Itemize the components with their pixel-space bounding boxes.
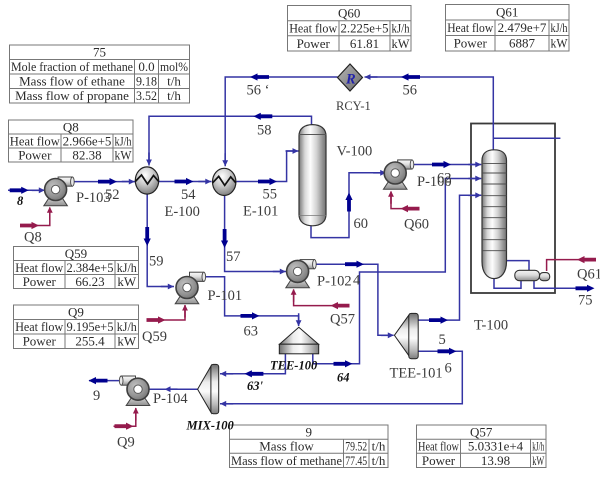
svg-text:62: 62	[437, 171, 452, 187]
svg-text:mol%: mol%	[160, 59, 188, 74]
label P-103	[76, 190, 111, 206]
wire stream 64 and 62 TEE-100 to T-100 feed 2	[313, 176, 482, 368]
svg-text:E-101: E-101	[243, 204, 278, 220]
svg-text:61.81: 61.81	[350, 36, 379, 51]
svg-text:kJ/h: kJ/h	[392, 21, 410, 36]
column T-100 sub-flowsheet envelope	[471, 124, 555, 294]
svg-text:Heat flow: Heat flow	[418, 439, 459, 454]
svg-text:Q8: Q8	[24, 230, 42, 246]
wire stream 75 reboiler to product	[534, 281, 595, 292]
wire T-100 bottom to reboiler	[506, 261, 529, 271]
svg-text:55: 55	[263, 187, 278, 203]
label stream 56p	[247, 83, 270, 99]
svg-text:Heat flow: Heat flow	[15, 260, 64, 275]
wire stream 56 T-100 overhead to RCY-1	[365, 73, 494, 149]
svg-text:t/h: t/h	[372, 439, 386, 454]
svg-text:Mass flow of propane: Mass flow of propane	[15, 88, 129, 103]
table stream 75 properties	[10, 45, 190, 103]
svg-text:MIX-100: MIX-100	[186, 419, 235, 433]
wire stream 8 into P-103	[8, 187, 45, 194]
svg-text:kJ/h: kJ/h	[117, 319, 137, 334]
recycle operation RCY-1	[338, 64, 363, 91]
svg-text:Q60: Q60	[404, 217, 429, 233]
label stream 9	[93, 388, 100, 404]
label Q8	[24, 230, 42, 246]
pump P-102	[286, 260, 316, 288]
splitter TEE-100	[279, 327, 318, 354]
label stream 75	[578, 293, 593, 309]
svg-text:54: 54	[181, 187, 196, 203]
svg-text:56: 56	[403, 83, 418, 99]
svg-text:Heat flow: Heat flow	[447, 20, 494, 35]
svg-text:2.479e+7: 2.479e+7	[498, 20, 547, 35]
wire stream 4 P-102 to TEE-101	[314, 261, 393, 339]
wire stream 6 TEE-101 to MIX-100	[220, 348, 462, 407]
energy stream Q61 wire	[547, 256, 596, 271]
wire stream 63p TEE-100 to MIX-100	[220, 354, 285, 378]
label stream 6	[445, 361, 452, 377]
label stream 58	[257, 123, 272, 139]
svg-text:Mass flow of methane: Mass flow of methane	[231, 453, 342, 468]
svg-text:Power: Power	[297, 36, 331, 51]
reboiler of T-100	[515, 270, 550, 280]
svg-text:kJ/h: kJ/h	[115, 133, 132, 148]
svg-text:66.23: 66.23	[75, 274, 104, 289]
label Q57	[330, 312, 355, 328]
svg-text:kW: kW	[392, 36, 411, 51]
svg-text:63': 63'	[247, 379, 264, 393]
label Q59	[142, 329, 167, 345]
svg-text:Heat flow: Heat flow	[15, 319, 64, 334]
heat exchanger E-100	[135, 167, 158, 194]
svg-text:Q60: Q60	[338, 6, 360, 21]
label stream 63	[244, 324, 259, 340]
energy stream Q59 wire	[147, 305, 188, 324]
svg-text:13.98: 13.98	[481, 453, 510, 468]
table Q61	[446, 5, 570, 52]
svg-text:t/h: t/h	[372, 453, 386, 468]
label TEE-101	[390, 366, 443, 382]
svg-text:kW: kW	[532, 453, 544, 468]
svg-text:9: 9	[306, 425, 313, 440]
svg-text:kW: kW	[117, 274, 137, 289]
wire T-100 bottoms to reboiler shell	[494, 279, 521, 289]
svg-text:P-101: P-101	[208, 288, 243, 304]
svg-text:9.195e+5: 9.195e+5	[67, 319, 114, 334]
svg-text:kJ/h: kJ/h	[532, 439, 544, 454]
label stream 8	[17, 194, 24, 208]
wire stream 52 P-103 to E-100	[72, 178, 135, 185]
svg-text:Q57: Q57	[330, 312, 355, 328]
svg-text:Mass flow: Mass flow	[259, 439, 314, 454]
wire T-100 reflux stub	[493, 137, 560, 139]
label stream 64	[337, 371, 350, 385]
svg-text:6: 6	[445, 361, 452, 377]
svg-text:75: 75	[578, 293, 593, 309]
svg-text:5: 5	[439, 332, 446, 348]
svg-text:Q8: Q8	[63, 119, 79, 134]
label MIX-100	[186, 419, 235, 433]
label stream 60	[354, 216, 369, 232]
svg-text:TEE-100: TEE-100	[270, 359, 318, 373]
svg-text:63: 63	[244, 324, 259, 340]
energy stream Q9 wire	[114, 408, 139, 430]
svg-text:64: 64	[337, 371, 350, 385]
svg-text:kJ/h: kJ/h	[117, 260, 137, 275]
label Q61	[577, 267, 600, 283]
label Q60	[404, 217, 429, 233]
svg-text:4: 4	[353, 273, 361, 289]
pump P-104	[119, 376, 149, 406]
wire stream 56p RCY-1 to E-101	[222, 73, 337, 166]
label RCY-1	[336, 99, 371, 113]
svg-text:5.0331e+4: 5.0331e+4	[468, 439, 524, 454]
label E-101	[243, 204, 278, 220]
svg-text:kW: kW	[551, 36, 569, 51]
label stream 55	[263, 187, 278, 203]
table Q8	[9, 119, 134, 162]
energy stream Q57 wire	[291, 289, 350, 309]
label Q9	[117, 435, 135, 451]
wire stream 59 E-100 to P-101	[144, 195, 174, 290]
svg-text:9: 9	[93, 388, 100, 404]
svg-text:52: 52	[105, 187, 120, 203]
svg-text:Q61: Q61	[577, 267, 600, 283]
svg-text:Q9: Q9	[117, 435, 135, 451]
label P-101	[208, 288, 243, 304]
label stream 4	[353, 273, 361, 289]
table Q9	[14, 305, 139, 349]
wire stream 58 V-100 top to E-100	[146, 113, 311, 166]
svg-text:Power: Power	[454, 36, 488, 51]
wire stream 55 E-101 to V-100	[237, 148, 299, 185]
column T-100 vessel	[482, 150, 507, 279]
wire stream 9 out of P-104	[89, 377, 122, 384]
svg-text:Power: Power	[23, 274, 57, 289]
table stream 9 properties	[230, 425, 389, 468]
pump P-103	[44, 177, 74, 206]
label stream 56	[403, 83, 418, 99]
svg-text:T-100: T-100	[474, 318, 508, 334]
svg-text:Power: Power	[23, 334, 57, 349]
svg-text:56 ‘: 56 ‘	[247, 83, 270, 99]
pump P-100	[383, 160, 413, 189]
svg-text:6887: 6887	[509, 36, 536, 51]
svg-text:8: 8	[17, 194, 24, 208]
wire stream 61 P-100 to T-100 feed 1	[412, 161, 481, 168]
svg-text:t/h: t/h	[167, 74, 181, 89]
svg-text:57: 57	[226, 249, 241, 265]
svg-text:75: 75	[93, 45, 106, 60]
table Q60	[288, 6, 412, 52]
svg-text:9.18: 9.18	[136, 74, 157, 89]
label stream 57	[226, 249, 241, 265]
label P-104	[153, 391, 188, 407]
vessel V-100	[299, 125, 326, 226]
svg-text:Q61: Q61	[496, 5, 518, 20]
svg-text:t/h: t/h	[167, 88, 181, 103]
svg-text:60: 60	[354, 216, 369, 232]
wire stream 60 V-100 bottom to P-100	[311, 170, 386, 238]
label stream 63p	[247, 379, 264, 393]
energy stream Q60 wire	[388, 191, 419, 212]
pump P-101	[175, 272, 205, 304]
label V-100	[337, 144, 373, 160]
svg-text:P-104: P-104	[153, 391, 188, 407]
wire stream 57 E-101 to P-102	[221, 196, 286, 274]
svg-text:kW: kW	[115, 147, 133, 162]
svg-text:77.45: 77.45	[345, 453, 367, 468]
svg-text:Mass flow of ethane: Mass flow of ethane	[19, 74, 125, 89]
svg-text:Mole fraction of methane: Mole fraction of methane	[11, 59, 133, 74]
label stream 5	[439, 332, 446, 348]
svg-text:E-100: E-100	[165, 204, 200, 220]
svg-text:59: 59	[149, 254, 164, 270]
label stream 52	[105, 187, 120, 203]
svg-text:Q59: Q59	[65, 246, 87, 261]
label P-102	[317, 274, 352, 290]
wire stream 5 TEE-101 to T-100 feed 3	[418, 192, 481, 323]
svg-text:R: R	[345, 72, 356, 88]
mixer MIX-100	[198, 364, 219, 413]
svg-text:kW: kW	[117, 334, 137, 349]
wire MIX-100 outlet to P-104	[149, 386, 198, 392]
label E-100	[165, 204, 200, 220]
label stream 59	[149, 254, 164, 270]
svg-text:2.225e+5: 2.225e+5	[341, 21, 389, 36]
svg-text:Power: Power	[18, 147, 52, 162]
svg-text:255.4: 255.4	[75, 334, 105, 349]
svg-text:58: 58	[257, 123, 272, 139]
table Q59	[14, 246, 139, 289]
svg-text:Q9: Q9	[68, 305, 84, 320]
svg-text:Heat flow: Heat flow	[10, 133, 61, 148]
wire stream 63 P-101 to TEE-100	[204, 277, 302, 327]
svg-text:Q57: Q57	[470, 425, 493, 440]
svg-text:2.384e+5: 2.384e+5	[67, 260, 114, 275]
energy stream Q8 wire	[20, 207, 53, 229]
svg-text:RCY-1: RCY-1	[336, 99, 371, 113]
svg-text:P-102: P-102	[317, 274, 352, 290]
table Q57	[417, 425, 547, 468]
label P-100	[417, 174, 452, 190]
svg-text:82.38: 82.38	[72, 147, 101, 162]
svg-text:TEE-101: TEE-101	[390, 366, 443, 382]
label TEE-100	[270, 359, 318, 373]
label T-100	[474, 318, 508, 334]
svg-text:Q59: Q59	[142, 329, 167, 345]
svg-text:Heat flow: Heat flow	[289, 21, 338, 36]
splitter TEE-101	[394, 313, 418, 358]
svg-text:79.52: 79.52	[345, 439, 367, 454]
heat exchanger E-101	[213, 168, 236, 195]
svg-text:kJ/h: kJ/h	[551, 20, 568, 35]
svg-text:3.52: 3.52	[136, 88, 157, 103]
svg-text:2.966e+5: 2.966e+5	[63, 133, 112, 148]
svg-text:Power: Power	[422, 453, 456, 468]
wire stream 54 E-100 to E-101	[159, 178, 212, 185]
svg-text:V-100: V-100	[337, 144, 373, 160]
label stream 62	[437, 171, 452, 187]
label stream 54	[181, 187, 196, 203]
svg-text:0.0: 0.0	[138, 59, 154, 74]
